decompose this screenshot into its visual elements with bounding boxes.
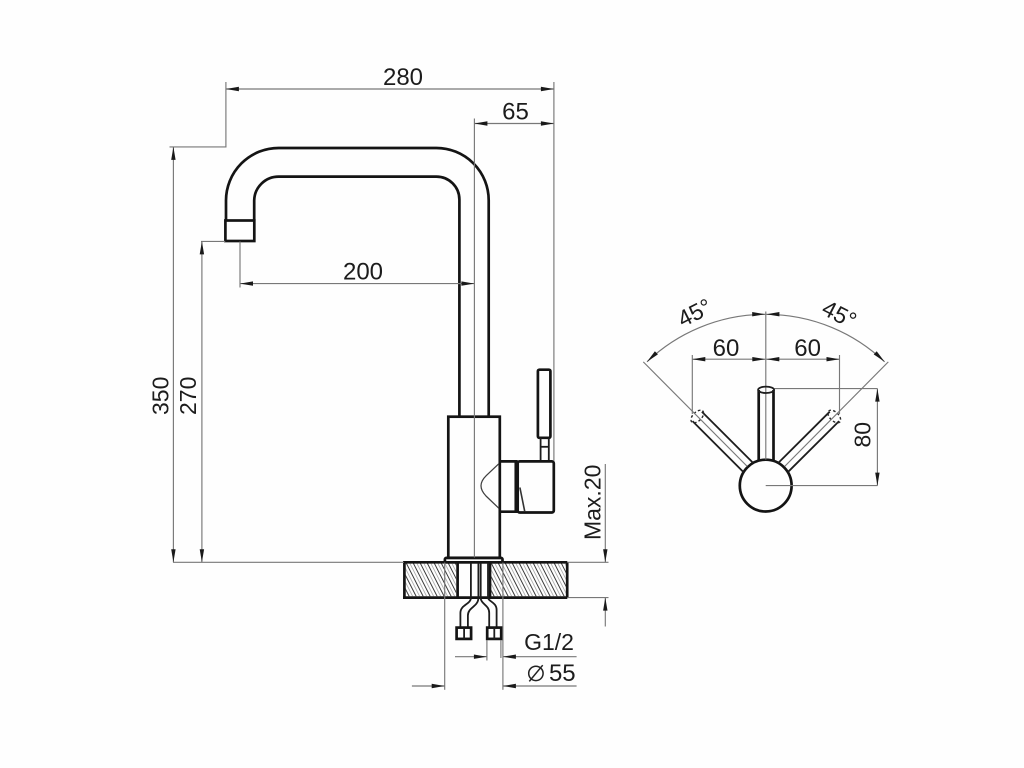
dimension diameter 55 — [412, 685, 445, 687]
dimension 280 — [226, 88, 554, 90]
left hose connector nut — [457, 628, 472, 639]
body circle top view — [740, 460, 792, 512]
countertop slab outline — [403, 561, 567, 564]
extension line 200 tip — [239, 242, 241, 288]
center crosshair vertical — [765, 312, 767, 460]
45 deg ray right — [785, 362, 889, 467]
faucet body — [448, 417, 500, 558]
centerline faucet axis — [473, 119, 475, 558]
spout outer contour — [226, 148, 489, 417]
right hose connector nut — [487, 628, 501, 639]
lever vertical tube — [757, 390, 760, 461]
lever right 45 deg tube — [778, 412, 830, 463]
countertop hatching left — [392, 563, 476, 597]
mounting hole edges — [456, 562, 459, 597]
handle neck — [540, 438, 542, 462]
extension lines G1/2 — [486, 640, 488, 661]
dimension 60 right — [766, 358, 839, 360]
counter top surface extension — [173, 561, 404, 563]
dimension 350 — [172, 147, 174, 562]
supply hoses in hole — [470, 563, 472, 598]
left hose below counter — [460, 598, 471, 628]
svg-text:200: 200 — [343, 259, 383, 286]
counter bottom extension — [567, 597, 608, 599]
extension line 270 top — [201, 240, 225, 242]
spout inner contour — [254, 177, 459, 417]
angle arc — [647, 314, 885, 362]
cap diagonal parting line — [520, 488, 525, 512]
center crosshair horizontal — [766, 485, 878, 487]
svg-text:350: 350 — [148, 377, 174, 415]
lever right tip dashed — [826, 408, 843, 425]
dimension Max.20 — [604, 464, 606, 562]
handle lever stick — [538, 370, 551, 438]
svg-text:80: 80 — [850, 422, 876, 448]
svg-text:Max.20: Max.20 — [580, 465, 606, 540]
svg-text:55: 55 — [549, 660, 576, 687]
base flange — [445, 558, 503, 562]
dimension G1/2 — [455, 656, 487, 658]
cartridge cap — [518, 461, 554, 512]
lever left tip dashed — [689, 408, 706, 425]
lever left 45 deg tube — [702, 412, 753, 463]
dimension 80 — [876, 389, 878, 486]
spout aerator tip box — [225, 221, 254, 242]
diameter symbol — [529, 666, 543, 680]
countertop hatching right — [477, 563, 582, 597]
dimension 200 — [240, 283, 474, 285]
extension line spout left — [225, 82, 227, 147]
extension line 350 top — [170, 146, 227, 148]
dimension 270 — [201, 241, 203, 562]
extension line 80 top — [775, 388, 878, 390]
extension lines 60 — [691, 355, 693, 414]
extension line flange right — [502, 563, 504, 690]
cone silhouette on body — [481, 464, 499, 508]
extension line flange left — [444, 563, 446, 690]
extension line handle right — [553, 82, 555, 461]
svg-text:G1/2: G1/2 — [524, 629, 574, 655]
cap-body connector lines — [500, 460, 518, 463]
svg-text:60: 60 — [794, 335, 821, 362]
svg-text:60: 60 — [713, 335, 740, 362]
lever tube top ellipse — [758, 387, 774, 393]
svg-text:270: 270 — [175, 377, 201, 415]
cap ring edge — [514, 461, 517, 512]
svg-text:280: 280 — [383, 64, 423, 91]
45 deg ray left — [643, 362, 747, 467]
svg-text:65: 65 — [502, 99, 529, 126]
right hose below counter — [481, 598, 490, 628]
dimension 65 — [474, 123, 554, 125]
dimension 60 left — [692, 358, 765, 360]
